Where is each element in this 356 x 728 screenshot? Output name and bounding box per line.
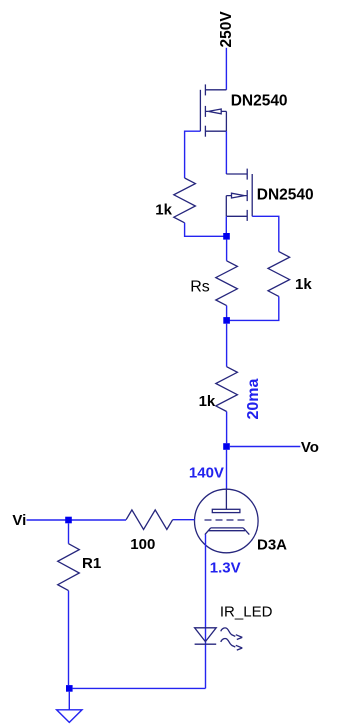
node Vo junction xyxy=(223,443,230,450)
wire node A to Rs xyxy=(226,240,228,261)
wire R2 bottom to node A xyxy=(185,223,227,237)
resistor R3 1k (right) xyxy=(268,252,290,297)
svg-text:DN2540: DN2540 xyxy=(231,93,288,110)
wire node B to bottom 1k resistor xyxy=(226,324,228,367)
svg-text:100: 100 xyxy=(130,536,155,553)
svg-text:R1: R1 xyxy=(82,555,101,572)
wire M1 gate to left 1k resistor xyxy=(185,131,201,178)
LED D1 IR_LED xyxy=(195,628,243,650)
svg-text:DN2540: DN2540 xyxy=(257,186,314,203)
svg-text:Vi: Vi xyxy=(12,512,26,529)
node A junction xyxy=(223,233,230,240)
wire bottom return xyxy=(73,687,206,689)
svg-text:1k: 1k xyxy=(295,276,312,293)
svg-text:D3A: D3A xyxy=(257,537,287,554)
wire M2 source to node A xyxy=(225,216,227,233)
wire node Vi to R1 xyxy=(68,523,70,543)
resistor R5 100 (horizontal) xyxy=(126,510,173,530)
wire node Vo to tube anode xyxy=(226,450,228,490)
ground xyxy=(57,710,82,723)
svg-text:140V: 140V xyxy=(189,464,224,481)
svg-text:1k: 1k xyxy=(155,201,172,218)
wire R3 bottom to node B xyxy=(227,296,279,320)
svg-text:1k: 1k xyxy=(199,393,216,410)
wire M1 source to M2 drain xyxy=(225,131,227,174)
wire grid to 100 resistor xyxy=(173,519,195,521)
wire M2 gate to right 1k resistor xyxy=(252,216,279,251)
resistor Rs xyxy=(216,261,238,306)
node ground junction xyxy=(66,685,73,692)
svg-text:20ma: 20ma xyxy=(245,378,262,419)
wire 250V supply to M1 drain xyxy=(225,48,227,90)
transistor M1 DN2540 (upper depletion NMOS) xyxy=(200,84,226,136)
wire Rs bottom to node B xyxy=(226,306,228,321)
wire ground stem xyxy=(68,692,70,710)
svg-text:Rs: Rs xyxy=(190,278,210,295)
svg-text:Vo: Vo xyxy=(301,439,319,456)
transistor M2 DN2540 (lower depletion NMOS, mirrored) xyxy=(226,169,252,221)
node B junction xyxy=(223,317,230,324)
resistor R2 1k (left) xyxy=(174,178,196,223)
resistor R1 xyxy=(58,544,80,591)
svg-text:250V: 250V xyxy=(218,11,235,48)
triode U1 D3A xyxy=(195,489,259,553)
wire Vo output stub xyxy=(230,446,300,448)
svg-text:IR_LED: IR_LED xyxy=(220,604,273,621)
wire cathode to LED to bottom return xyxy=(205,534,207,688)
wire Vi input xyxy=(27,519,127,521)
node Vi junction xyxy=(65,517,72,524)
resistor R4 1k (bottom) xyxy=(216,367,238,412)
wire R1 bottom to ground node xyxy=(68,591,70,686)
wire R4 bottom to node Vo xyxy=(226,412,228,444)
svg-text:1.3V: 1.3V xyxy=(210,560,241,577)
